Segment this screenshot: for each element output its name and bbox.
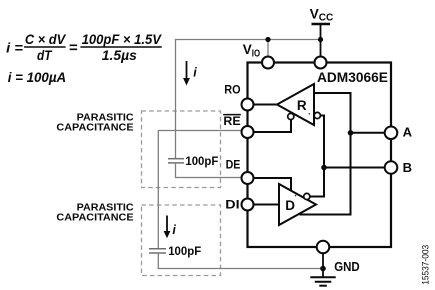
svg-text:V: V bbox=[310, 6, 319, 21]
svg-text:RO: RO bbox=[224, 82, 240, 96]
wire A node bbox=[351, 132, 392, 134]
pin DE bbox=[242, 172, 254, 184]
pin GND bbox=[317, 241, 330, 254]
current arrow i (upper) bbox=[183, 61, 197, 86]
svg-text:D: D bbox=[285, 198, 295, 213]
pin A bbox=[385, 127, 398, 140]
wire rail down to C1 bbox=[175, 39, 177, 159]
fraction bar 1 bbox=[24, 46, 66, 48]
pin RO bbox=[242, 99, 254, 111]
receiver U1a triangle R bbox=[277, 84, 314, 125]
equation i = C×dV/dT = 100pF×1.5V/1.5µs bbox=[6, 32, 162, 63]
wire VIO pin drop bbox=[267, 40, 269, 63]
label VIO bbox=[243, 42, 261, 59]
VCC power bar symbol bbox=[312, 23, 331, 25]
svg-text:1.5µs: 1.5µs bbox=[102, 48, 137, 63]
node junction rail-VIO bbox=[265, 37, 270, 42]
capacitor C1 100pF bbox=[168, 159, 184, 163]
svg-text:CAPACITANCE: CAPACITANCE bbox=[56, 212, 133, 224]
svg-text:CAPACITANCE: CAPACITANCE bbox=[56, 122, 133, 134]
svg-text:i =: i = bbox=[6, 40, 23, 55]
wire VCC bar to pin bbox=[320, 24, 322, 63]
svg-text:CC: CC bbox=[319, 13, 334, 24]
driver inverting output wire bbox=[310, 168, 325, 197]
label PARASITIC CAPACITANCE (upper) bbox=[56, 112, 134, 134]
svg-text:15537-003: 15537-003 bbox=[420, 245, 430, 285]
svg-text:dT: dT bbox=[37, 48, 53, 63]
pin VIO bbox=[262, 57, 274, 69]
driver U1b triangle D bbox=[279, 184, 316, 225]
speck near D bbox=[295, 195, 297, 197]
wire RO to receiver bbox=[248, 104, 278, 106]
svg-text:100pF × 1.5V: 100pF × 1.5V bbox=[82, 32, 162, 47]
wire DI to driver bbox=[248, 204, 280, 206]
receiver input A wire bbox=[314, 93, 351, 133]
node junction rail-VCC bbox=[318, 37, 323, 42]
wire RE tap bbox=[158, 131, 243, 249]
current arrow i (lower) bbox=[164, 216, 177, 239]
capacitor C2 100pF bbox=[149, 249, 166, 253]
driver output wire to A bbox=[300, 133, 351, 215]
speck near R bbox=[309, 113, 311, 115]
node junction GND rail bbox=[320, 266, 326, 272]
driver inverting output bubble bbox=[304, 193, 310, 199]
chip box U1 ADM3066E bbox=[248, 63, 392, 248]
svg-text:C × dV: C × dV bbox=[25, 32, 66, 47]
pin DI bbox=[242, 199, 254, 211]
svg-text:100pF: 100pF bbox=[185, 154, 218, 168]
svg-text:DE: DE bbox=[226, 157, 241, 171]
svg-text:IO: IO bbox=[252, 48, 261, 59]
wire C2 bottom to GND rail bbox=[158, 253, 323, 269]
receiver enable bubble bbox=[288, 113, 294, 119]
pin RE bbox=[242, 126, 254, 138]
fraction bar 2 bbox=[80, 46, 161, 48]
wire GND pin to ground bbox=[322, 253, 324, 277]
dashed box (lower parasitic capacitance) bbox=[142, 205, 221, 276]
svg-text:100pF: 100pF bbox=[168, 244, 201, 258]
svg-text:i: i bbox=[172, 223, 176, 237]
wire B node bbox=[324, 167, 391, 169]
node junction A bbox=[348, 130, 354, 136]
svg-text:B: B bbox=[403, 160, 412, 175]
wire C1 bottom to DE bbox=[176, 163, 244, 178]
svg-text:ADM3066E: ADM3066E bbox=[317, 69, 388, 85]
label PARASITIC CAPACITANCE (lower) bbox=[56, 202, 134, 224]
receiver inverting input bubble bbox=[314, 112, 320, 118]
label VCC bbox=[310, 6, 334, 23]
svg-text:DI: DI bbox=[225, 197, 239, 211]
node junction B bbox=[321, 165, 327, 171]
pin B bbox=[385, 161, 398, 174]
svg-text:R: R bbox=[297, 98, 307, 113]
wire RE to receiver enable bbox=[248, 119, 292, 132]
svg-text:GND: GND bbox=[334, 259, 360, 274]
wire DE to driver enable bbox=[248, 178, 292, 191]
ground symbol bbox=[310, 277, 335, 285]
svg-text:=: = bbox=[69, 39, 78, 56]
svg-text:i: i bbox=[193, 66, 197, 80]
svg-text:V: V bbox=[243, 42, 252, 57]
pin VCC bbox=[315, 57, 327, 69]
svg-text:i = 100µA: i = 100µA bbox=[8, 70, 66, 85]
dashed box (upper parasitic capacitance) bbox=[142, 111, 221, 188]
pin label RE (with overline) bbox=[223, 114, 241, 128]
wire VIO/VCC gray rail bbox=[176, 39, 321, 41]
svg-text:RE: RE bbox=[223, 114, 240, 128]
receiver input B wire bbox=[320, 116, 324, 168]
svg-text:A: A bbox=[403, 125, 413, 140]
